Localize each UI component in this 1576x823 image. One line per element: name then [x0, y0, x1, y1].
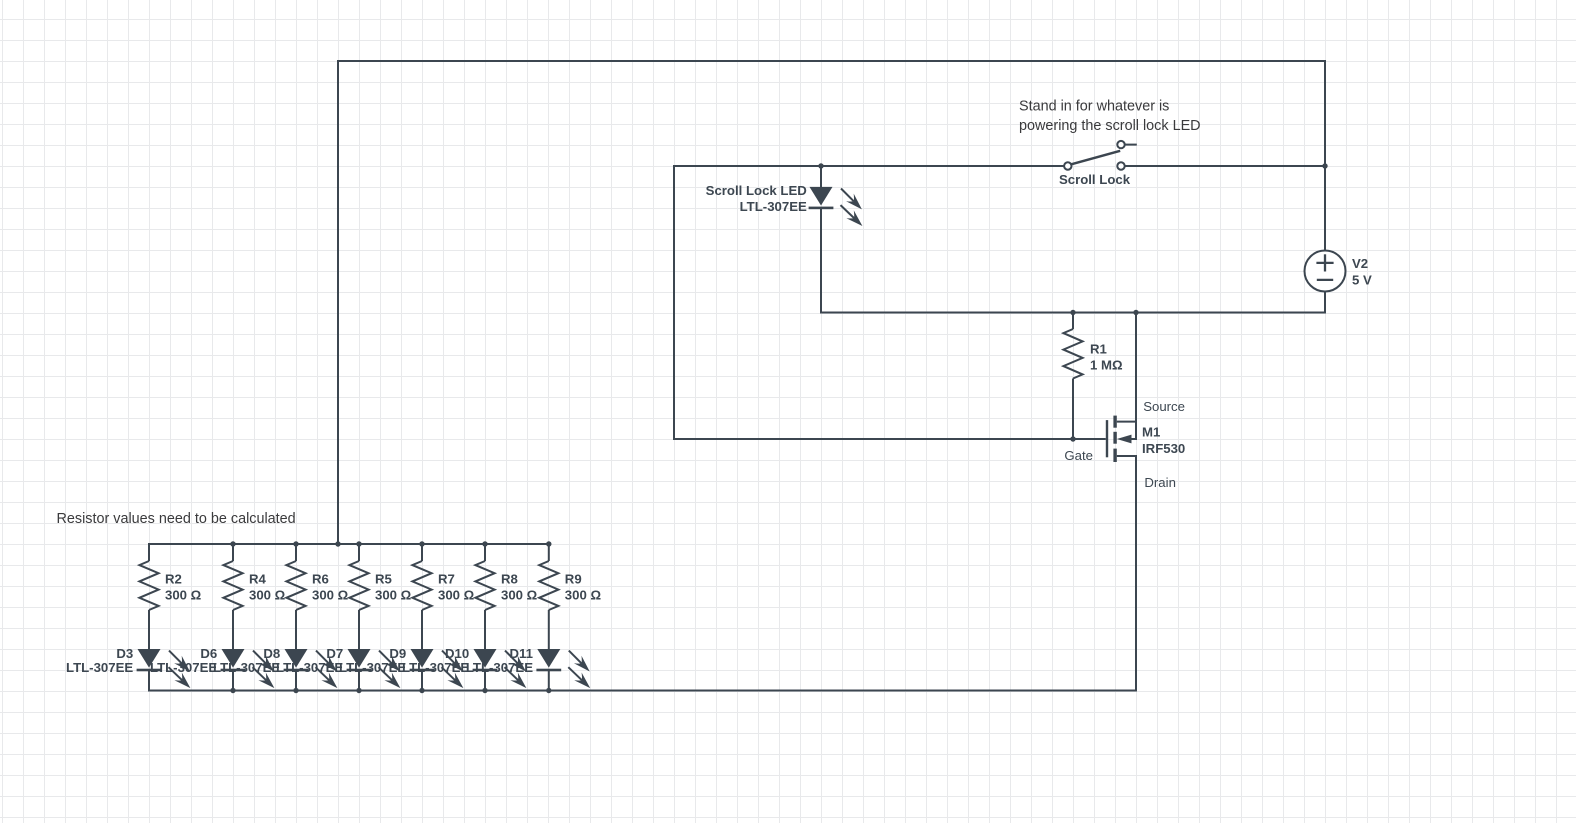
- node junction feed / bank top rail: [335, 541, 340, 546]
- D10 emission arrow 2: [505, 667, 519, 680]
- svg-text:R5: R5: [375, 571, 392, 586]
- svg-text:LTL-307EE: LTL-307EE: [150, 660, 217, 675]
- svg-text:D11: D11: [510, 646, 533, 661]
- svg-text:D6: D6: [200, 646, 217, 661]
- node junction R6 top: [293, 541, 298, 546]
- transistor M1 IRF530 (NMOS): [1106, 420, 1108, 457]
- node junction LED1 anode: [818, 163, 823, 168]
- resistor R6 zigzag: [286, 561, 305, 610]
- svg-text:Scroll Lock LED: Scroll Lock LED: [706, 183, 807, 198]
- svg-text:powering the scroll lock LED: powering the scroll lock LED: [1019, 118, 1201, 134]
- wire D7 cathode lead: [358, 671, 360, 692]
- wire left vertical (from top rail down to resistor bank): [337, 60, 339, 545]
- svg-text:V2: V2: [1352, 256, 1368, 271]
- wire D8 cathode lead: [295, 671, 297, 692]
- wire switch right segment: [1125, 165, 1326, 167]
- svg-text:Stand in for whatever is: Stand in for whatever is: [1019, 98, 1169, 114]
- wire LED1 cathode lead: [820, 209, 822, 314]
- svg-text:LTL-307EE: LTL-307EE: [402, 660, 469, 675]
- svg-text:D7: D7: [326, 646, 343, 661]
- svg-text:300 Ω: 300 Ω: [165, 588, 202, 603]
- LED D7 (LTL-307EE): [348, 649, 371, 668]
- svg-text:300 Ω: 300 Ω: [565, 588, 602, 603]
- wire D10 cathode lead: [484, 671, 486, 692]
- svg-text:LTL-307EE: LTL-307EE: [66, 660, 133, 675]
- wire D3 cathode lead: [148, 671, 150, 692]
- node junction R5 top: [356, 541, 361, 546]
- D9 emission arrow 2: [442, 667, 456, 680]
- wire switch left segment: [673, 165, 1064, 167]
- svg-text:R1: R1: [1090, 342, 1107, 357]
- wire R8 to D10: [484, 610, 486, 650]
- LED D11 (LTL-307EE): [537, 649, 560, 668]
- D6 emission arrow 1: [253, 651, 266, 664]
- svg-text:LTL-307EE: LTL-307EE: [213, 660, 280, 675]
- D8 emission arrow 1: [316, 651, 329, 664]
- resistor R1 top lead: [1072, 313, 1074, 330]
- svg-text:R2: R2: [165, 571, 182, 586]
- wire R6 to D8: [295, 610, 297, 650]
- wire R7 to D9: [421, 610, 423, 650]
- LED D3 (LTL-307EE): [138, 649, 161, 668]
- svg-text:Gate: Gate: [1064, 448, 1093, 463]
- svg-text:IRF530: IRF530: [1142, 441, 1185, 456]
- svg-text:M1: M1: [1142, 425, 1160, 440]
- resistor R1 bottom lead: [1072, 379, 1074, 441]
- node junction D9 cathode / bottom rail: [419, 688, 424, 693]
- voltage source V2: [1305, 251, 1346, 292]
- switch SW1 Scroll Lock (SPDT, open): [1071, 151, 1120, 165]
- resistor R4 zigzag: [223, 561, 242, 610]
- wire bank bottom rail: [148, 690, 1137, 692]
- svg-text:R4: R4: [249, 571, 267, 586]
- resistor R4 top lead: [232, 544, 234, 561]
- D3 emission arrow 1: [169, 651, 182, 664]
- svg-text:5 V: 5 V: [1352, 273, 1372, 288]
- wire gate horizontal: [673, 438, 1106, 440]
- svg-text:300 Ω: 300 Ω: [438, 588, 475, 603]
- D3 emission arrow 2: [169, 667, 183, 680]
- svg-text:Scroll Lock: Scroll Lock: [1059, 172, 1131, 187]
- LED D8 (LTL-307EE): [285, 649, 308, 668]
- wire inner-left vertical: [673, 165, 675, 440]
- resistor R5 top lead: [358, 544, 360, 561]
- node junction D10 cathode / bottom rail: [482, 688, 487, 693]
- D10 emission arrow 1: [505, 651, 518, 664]
- svg-text:R7: R7: [438, 571, 455, 586]
- resistor R9 zigzag: [539, 561, 558, 610]
- svg-text:300 Ω: 300 Ω: [249, 588, 286, 603]
- D6 emission arrow 2: [253, 667, 267, 680]
- node junction R9 top: [546, 541, 551, 546]
- svg-text:Drain: Drain: [1144, 475, 1176, 490]
- LED D9 (LTL-307EE): [411, 649, 434, 668]
- node junction R8 top: [482, 541, 487, 546]
- D11 emission arrow 2: [568, 667, 582, 680]
- LED D6 (LTL-307EE): [222, 649, 245, 668]
- wire bank top rail: [148, 543, 550, 545]
- wire LED1 anode lead: [820, 166, 822, 188]
- resistor R7 top lead: [421, 544, 423, 561]
- wire top horizontal (V+ rail): [337, 60, 1326, 62]
- wire stub from switch top throw: [1125, 144, 1137, 146]
- svg-text:D9: D9: [389, 646, 406, 661]
- svg-text:Resistor values need to be cal: Resistor values need to be calculated: [57, 511, 296, 527]
- svg-text:R6: R6: [312, 571, 329, 586]
- svg-text:D8: D8: [263, 646, 280, 661]
- LED D10 (LTL-307EE): [474, 649, 497, 668]
- wire R5 to D7: [358, 610, 360, 650]
- svg-text:R8: R8: [501, 571, 518, 586]
- wire R4 to D6: [232, 610, 234, 650]
- node junction D6 cathode / bottom rail: [230, 688, 235, 693]
- wire R9 to D11: [548, 610, 550, 650]
- node junction switch wire / right vertical: [1322, 163, 1327, 168]
- resistor R9 top lead: [548, 544, 550, 561]
- resistor R5 zigzag: [349, 561, 368, 610]
- svg-text:Source: Source: [1143, 399, 1185, 414]
- node junction R4 top: [230, 541, 235, 546]
- resistor R1 zigzag: [1063, 329, 1082, 379]
- node junction D8 cathode / bottom rail: [293, 688, 298, 693]
- LED1 emission arrow 1: [841, 189, 854, 202]
- wire D11 cathode lead: [548, 671, 550, 692]
- svg-text:D3: D3: [116, 646, 133, 661]
- svg-text:300 Ω: 300 Ω: [501, 588, 538, 603]
- wire D9 cathode lead: [421, 671, 423, 692]
- svg-text:300 Ω: 300 Ω: [375, 588, 412, 603]
- resistor R2 top lead: [148, 544, 150, 561]
- resistor R2 zigzag: [139, 561, 158, 610]
- resistor R8 zigzag: [475, 561, 494, 610]
- node junction D11 cathode / bottom rail: [546, 688, 551, 693]
- svg-text:D10: D10: [445, 646, 469, 661]
- LED D? Scroll Lock LED (LTL-307EE): [810, 187, 833, 206]
- resistor R6 top lead: [295, 544, 297, 561]
- wire R2 to D3: [148, 610, 150, 650]
- D11 emission arrow 1: [569, 651, 582, 664]
- svg-text:LTL-307EE: LTL-307EE: [740, 199, 807, 214]
- node junction M1 source / mid rail: [1133, 310, 1138, 315]
- svg-text:LTL-307EE: LTL-307EE: [276, 660, 343, 675]
- D7 emission arrow 1: [379, 651, 392, 664]
- resistor R8 top lead: [484, 544, 486, 561]
- D7 emission arrow 2: [379, 667, 393, 680]
- wire mid horizontal (V2 minus rail): [820, 312, 1326, 314]
- node junction R1 bottom / gate wire: [1070, 436, 1075, 441]
- resistor R7 zigzag: [412, 561, 431, 610]
- D8 emission arrow 2: [316, 667, 330, 680]
- node junction R1 top: [1070, 310, 1075, 315]
- wire D6 cathode lead: [232, 671, 234, 692]
- svg-text:300 Ω: 300 Ω: [312, 588, 349, 603]
- wire right vertical upper (top rail to V2 plus): [1324, 60, 1326, 251]
- D9 emission arrow 1: [442, 651, 455, 664]
- svg-text:R9: R9: [565, 571, 582, 586]
- LED1 emission arrow 2: [841, 205, 855, 218]
- wire right vertical lower (V2 minus to mid rail): [1324, 292, 1326, 314]
- wire M1 source vertical: [1135, 312, 1137, 441]
- svg-text:LTL-307EE: LTL-307EE: [466, 660, 533, 675]
- svg-text:1 MΩ: 1 MΩ: [1090, 357, 1123, 372]
- node junction D7 cathode / bottom rail: [356, 688, 361, 693]
- node junction R7 top: [419, 541, 424, 546]
- svg-text:LTL-307EE: LTL-307EE: [339, 660, 406, 675]
- wire M1 drain vertical: [1135, 455, 1137, 692]
